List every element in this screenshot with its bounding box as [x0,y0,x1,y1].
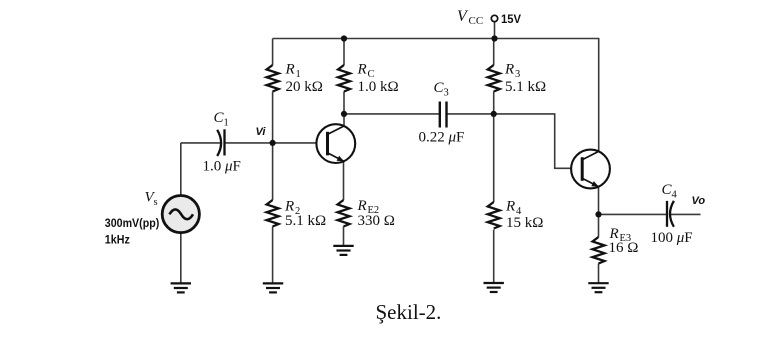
svg-text:1.0 μF: 1.0 μF [203,159,241,175]
svg-text:1kHz: 1kHz [105,232,130,246]
svg-text:1: 1 [224,118,229,129]
svg-text:100 μF: 100 μF [651,230,693,246]
svg-text:R: R [357,62,367,78]
svg-text:Şekil-2.: Şekil-2. [376,300,442,324]
svg-text:Vi: Vi [256,126,267,138]
svg-text:s: s [154,197,158,208]
svg-text:CC: CC [469,15,484,27]
svg-text:15V: 15V [501,12,521,26]
svg-text:0.22 μF: 0.22 μF [419,130,465,146]
svg-text:4: 4 [672,190,678,201]
svg-text:R: R [285,62,295,78]
svg-text:20 kΩ: 20 kΩ [286,79,323,95]
svg-text:1.0 kΩ: 1.0 kΩ [358,79,399,95]
svg-text:5.1 kΩ: 5.1 kΩ [285,213,326,229]
svg-text:15 kΩ: 15 kΩ [506,215,543,231]
svg-text:3: 3 [444,88,449,99]
svg-text:R: R [504,62,514,78]
svg-text:300mV(pp): 300mV(pp) [105,216,160,230]
svg-text:R: R [505,199,515,215]
svg-text:16 Ω: 16 Ω [609,240,639,256]
svg-text:V: V [457,8,469,25]
svg-text:Vo: Vo [692,195,706,207]
svg-text:R: R [357,198,367,214]
svg-text:5.1 kΩ: 5.1 kΩ [505,79,546,95]
svg-text:330 Ω: 330 Ω [358,213,395,229]
